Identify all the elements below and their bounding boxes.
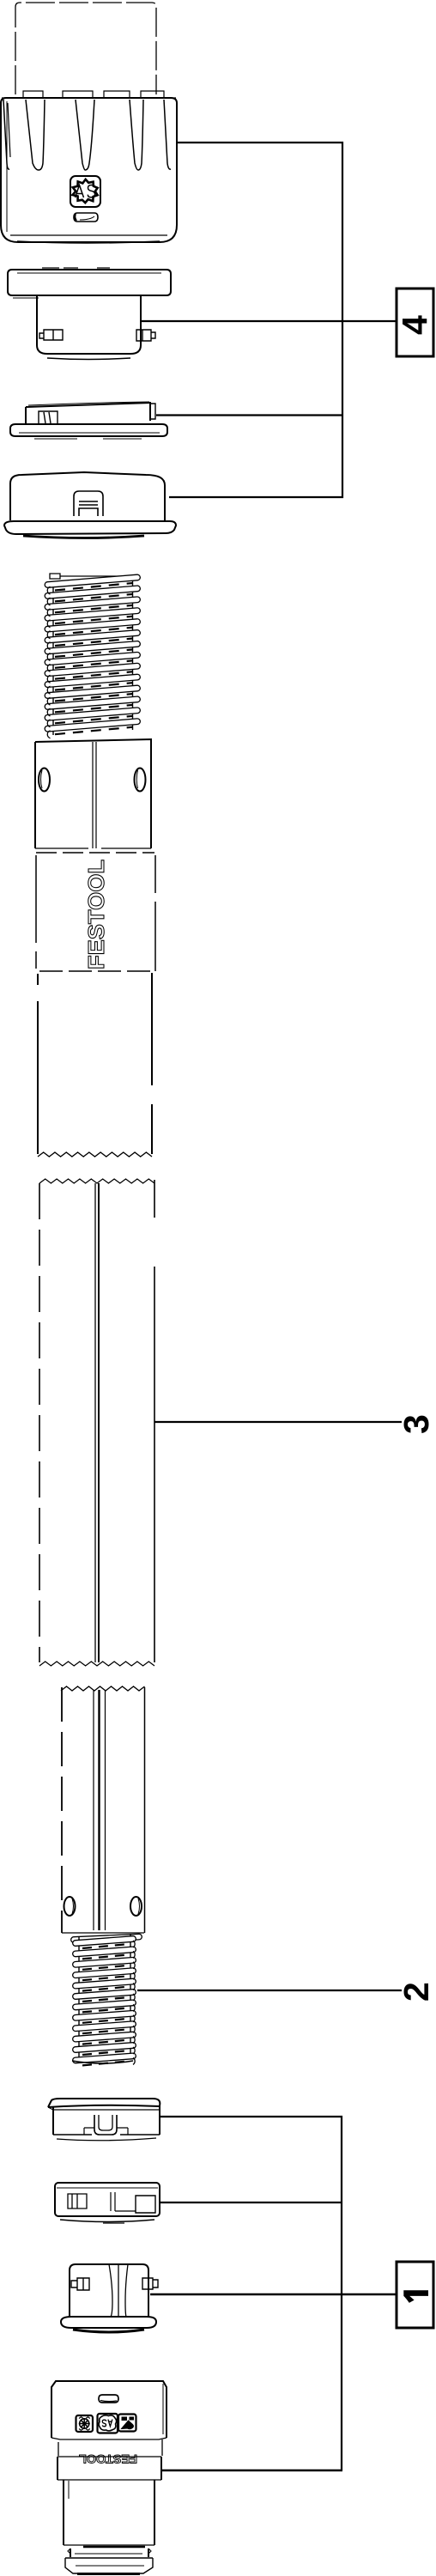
svg-text:4: 4 [395,315,434,335]
svg-text:3: 3 [397,1414,436,1434]
svg-text:2: 2 [397,1982,436,2002]
svg-text:FESTOOL: FESTOOL [79,2452,137,2465]
svg-text:FESTOOL: FESTOOL [83,860,109,969]
